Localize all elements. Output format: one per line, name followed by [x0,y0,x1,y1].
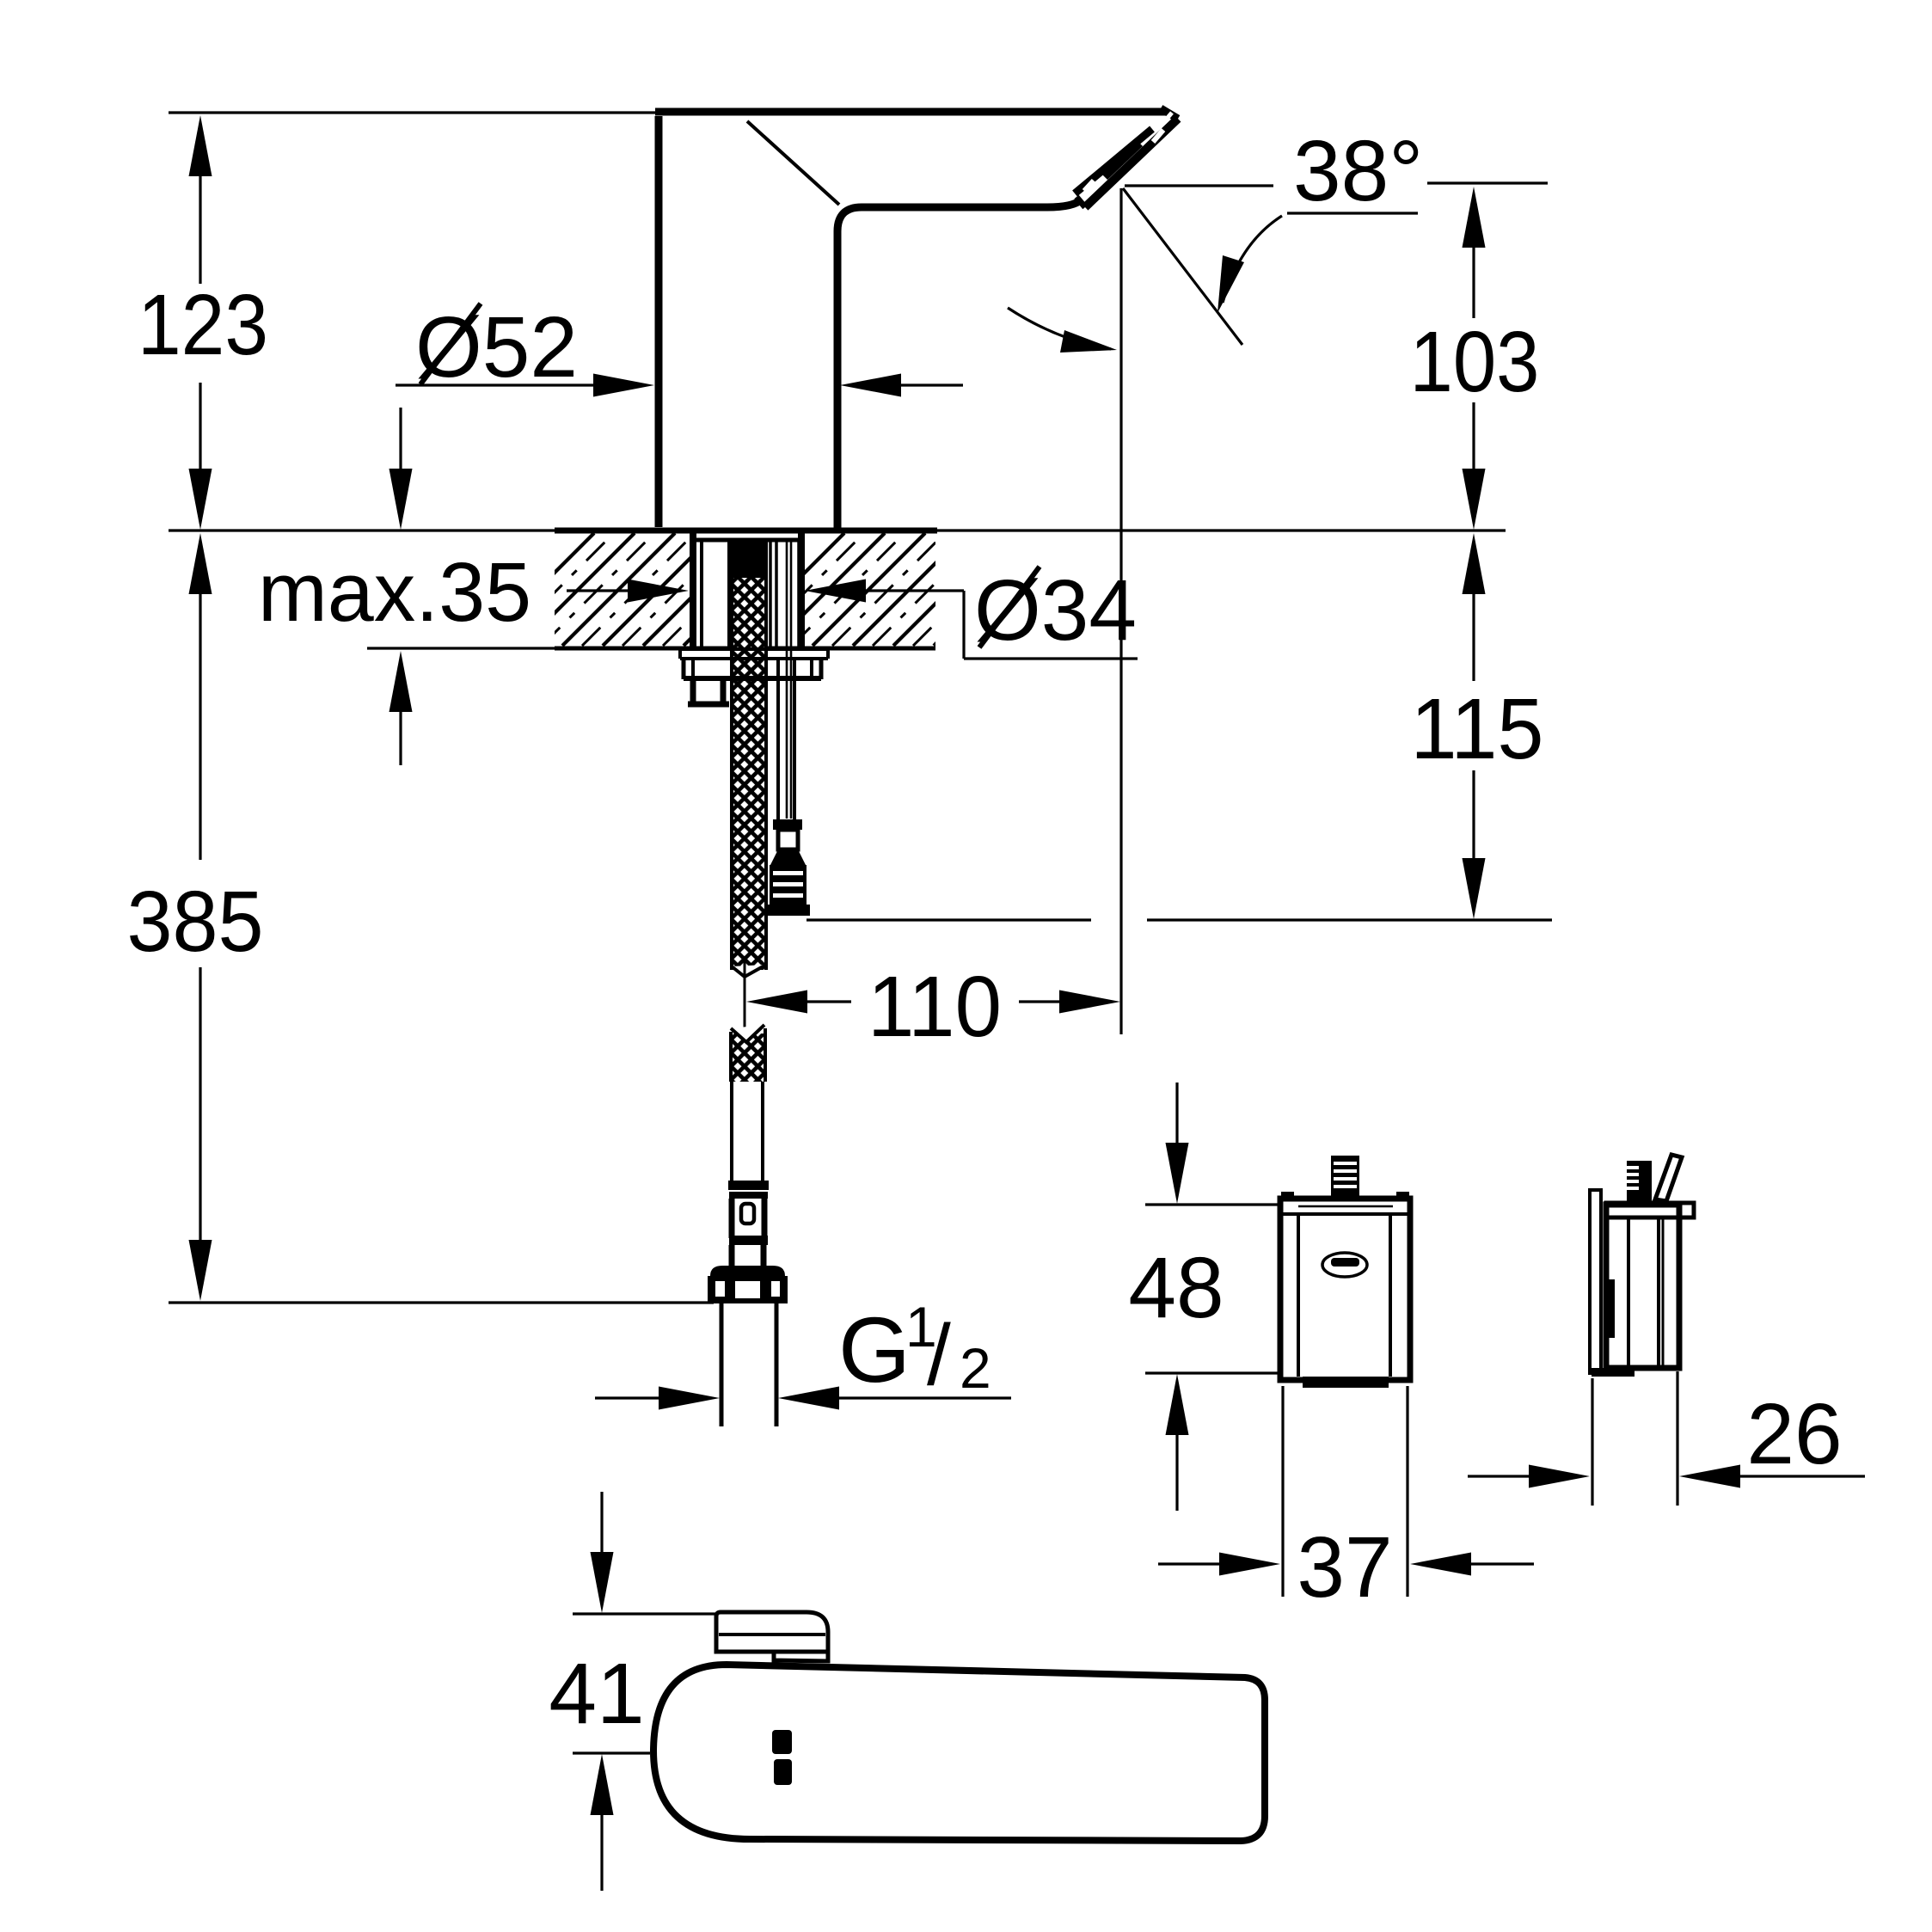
svg-text:38°: 38° [1293,123,1423,219]
svg-text:110: 110 [868,959,1002,1055]
svg-text:48: 48 [1128,1240,1224,1336]
svg-text:37: 37 [1297,1519,1392,1616]
svg-text:26: 26 [1746,1386,1842,1482]
svg-text:Ø34: Ø34 [974,562,1137,659]
svg-text:G: G [838,1297,911,1401]
svg-text:2: 2 [960,1336,991,1400]
svg-text:/: / [927,1307,951,1403]
svg-text:115: 115 [1411,681,1544,777]
svg-text:103: 103 [1410,314,1540,410]
svg-text:123: 123 [138,277,268,373]
svg-text:385: 385 [127,874,264,970]
svg-text:41: 41 [549,1646,644,1742]
svg-text:Ø52: Ø52 [415,299,578,396]
svg-text:max.35: max.35 [258,545,531,639]
